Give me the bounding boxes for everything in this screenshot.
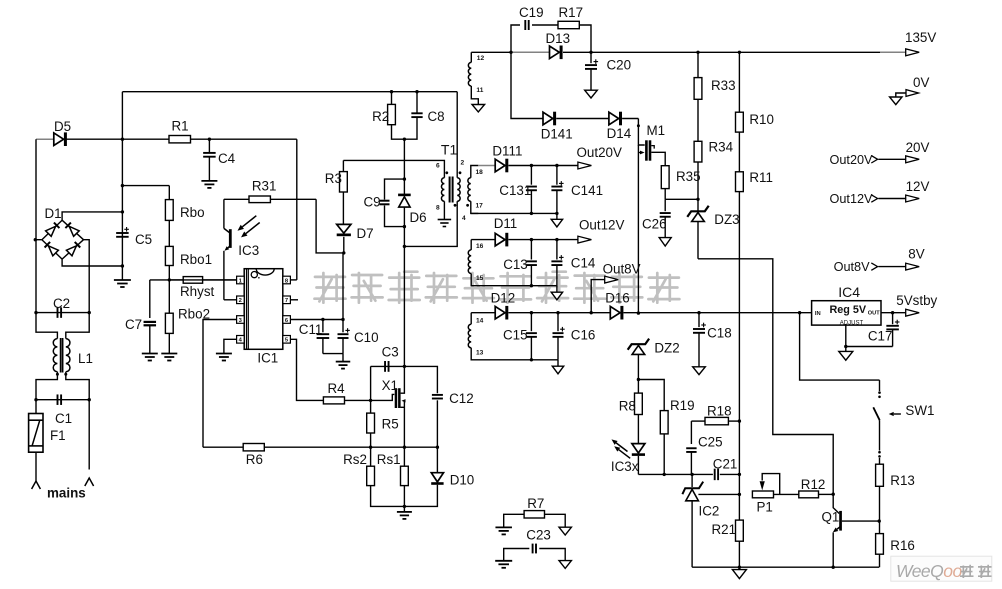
svg-text:2: 2 (461, 160, 465, 167)
svg-text:OUT: OUT (868, 311, 880, 317)
svg-text:12V: 12V (906, 179, 930, 194)
svg-text:D10: D10 (450, 473, 475, 488)
svg-text:C131: C131 (499, 183, 531, 198)
svg-text:C18: C18 (707, 326, 732, 341)
svg-text:D12: D12 (491, 291, 516, 306)
svg-text:C7: C7 (125, 317, 142, 332)
svg-text:X1: X1 (382, 378, 398, 393)
svg-text:Out8V: Out8V (834, 260, 871, 274)
svg-text:8: 8 (436, 204, 440, 211)
svg-text:Out12V: Out12V (830, 192, 874, 206)
svg-text:C3: C3 (382, 345, 399, 360)
svg-text:D11: D11 (494, 216, 518, 231)
svg-text:IC1: IC1 (257, 351, 278, 366)
svg-text:R12: R12 (801, 477, 826, 492)
svg-text:Out20V: Out20V (577, 145, 622, 160)
svg-text:D7: D7 (357, 226, 374, 241)
svg-text:C19: C19 (519, 5, 544, 20)
svg-text:R35: R35 (676, 169, 701, 184)
svg-text:ADJUST: ADJUST (840, 320, 864, 326)
svg-text:0V: 0V (913, 75, 929, 90)
svg-text:D14: D14 (607, 126, 632, 141)
svg-text:Out20V: Out20V (830, 153, 874, 167)
svg-text:D1: D1 (45, 206, 62, 221)
svg-text:R5: R5 (382, 417, 399, 432)
svg-text:C141: C141 (571, 183, 603, 198)
svg-text:C9: C9 (364, 194, 381, 209)
svg-text:P1: P1 (757, 500, 773, 515)
svg-text:2: 2 (239, 298, 242, 304)
svg-text:R1: R1 (172, 119, 189, 134)
svg-text:18: 18 (476, 169, 484, 176)
svg-text:Reg 5V: Reg 5V (830, 304, 867, 316)
svg-text:DZ3: DZ3 (714, 212, 739, 227)
svg-text:16: 16 (476, 243, 484, 250)
svg-text:C23: C23 (526, 528, 551, 543)
svg-text:R8: R8 (619, 399, 636, 414)
svg-text:WeeQoo: WeeQoo (896, 561, 963, 581)
svg-text:D141: D141 (541, 127, 573, 142)
svg-text:D5: D5 (54, 119, 71, 134)
svg-text:13: 13 (476, 349, 484, 356)
svg-text:R33: R33 (711, 78, 736, 93)
svg-text:C26: C26 (642, 217, 667, 232)
svg-text:IN: IN (815, 311, 821, 317)
svg-text:R31: R31 (252, 179, 277, 194)
svg-text:R3: R3 (325, 171, 342, 186)
svg-text:F1: F1 (50, 428, 66, 443)
svg-text:C25: C25 (698, 435, 723, 450)
svg-text:C15: C15 (503, 328, 528, 343)
svg-text:D16: D16 (605, 291, 630, 306)
svg-text:M1: M1 (647, 123, 666, 138)
svg-text:R10: R10 (749, 112, 774, 127)
svg-text:C21: C21 (713, 456, 738, 471)
svg-text:C17: C17 (868, 329, 893, 344)
svg-text:IC3x: IC3x (611, 459, 639, 474)
svg-text:R17: R17 (559, 5, 584, 20)
svg-text:135V: 135V (905, 30, 936, 45)
svg-text:6: 6 (436, 163, 440, 170)
svg-text:Rbo2: Rbo2 (178, 307, 210, 322)
svg-text:17: 17 (476, 202, 484, 209)
svg-text:C1: C1 (55, 411, 72, 426)
svg-text:C13: C13 (503, 257, 528, 272)
svg-text:5Vstby: 5Vstby (896, 293, 937, 308)
svg-text:7: 7 (285, 298, 288, 304)
svg-text:C12: C12 (449, 391, 474, 406)
svg-text:12: 12 (477, 55, 485, 62)
svg-text:mains: mains (47, 486, 86, 501)
svg-text:IC2: IC2 (699, 504, 720, 519)
svg-text:15: 15 (476, 275, 484, 282)
svg-text:C14: C14 (571, 256, 596, 271)
svg-text:14: 14 (476, 318, 484, 325)
svg-text:DZ2: DZ2 (654, 341, 679, 356)
svg-text:Out8V: Out8V (603, 262, 641, 277)
svg-text:Rbo: Rbo (180, 205, 205, 220)
svg-text:D111: D111 (492, 144, 522, 159)
svg-text:R19: R19 (670, 398, 695, 413)
svg-text:IC3: IC3 (238, 243, 259, 258)
svg-text:C8: C8 (428, 109, 445, 124)
svg-text:Rs1: Rs1 (377, 452, 401, 467)
svg-text:Rhyst: Rhyst (180, 284, 215, 299)
svg-text:C4: C4 (218, 151, 236, 166)
svg-text:Rbo1: Rbo1 (180, 252, 212, 267)
svg-text:R21: R21 (712, 522, 737, 537)
svg-text:11: 11 (476, 87, 483, 94)
svg-text:IC4: IC4 (838, 284, 860, 300)
svg-text:R2: R2 (372, 109, 389, 124)
svg-text:L1: L1 (78, 351, 93, 366)
svg-text:Out12V: Out12V (579, 218, 624, 233)
svg-text:T1: T1 (441, 142, 458, 158)
svg-text:Q1: Q1 (822, 510, 840, 525)
svg-text:C16: C16 (571, 328, 596, 343)
svg-text:20V: 20V (906, 140, 930, 155)
svg-text:R6: R6 (246, 452, 263, 467)
svg-text:C5: C5 (135, 232, 152, 247)
svg-text:R11: R11 (749, 170, 773, 185)
svg-text:C20: C20 (607, 58, 632, 73)
svg-text:C10: C10 (354, 330, 379, 345)
svg-text:R16: R16 (890, 538, 915, 553)
svg-text:R7: R7 (527, 496, 544, 511)
svg-text:R18: R18 (707, 403, 732, 418)
svg-text:R34: R34 (709, 140, 734, 155)
svg-text:C2: C2 (53, 296, 70, 311)
svg-text:Rs2: Rs2 (343, 452, 367, 467)
svg-text:D6: D6 (410, 210, 427, 225)
svg-text:SW1: SW1 (905, 403, 934, 418)
svg-text:R4: R4 (328, 381, 346, 396)
svg-text:R13: R13 (890, 473, 915, 488)
svg-text:C11: C11 (299, 322, 323, 337)
svg-text:D13: D13 (546, 31, 571, 46)
svg-text:8V: 8V (908, 247, 924, 262)
svg-text:4: 4 (462, 215, 466, 222)
